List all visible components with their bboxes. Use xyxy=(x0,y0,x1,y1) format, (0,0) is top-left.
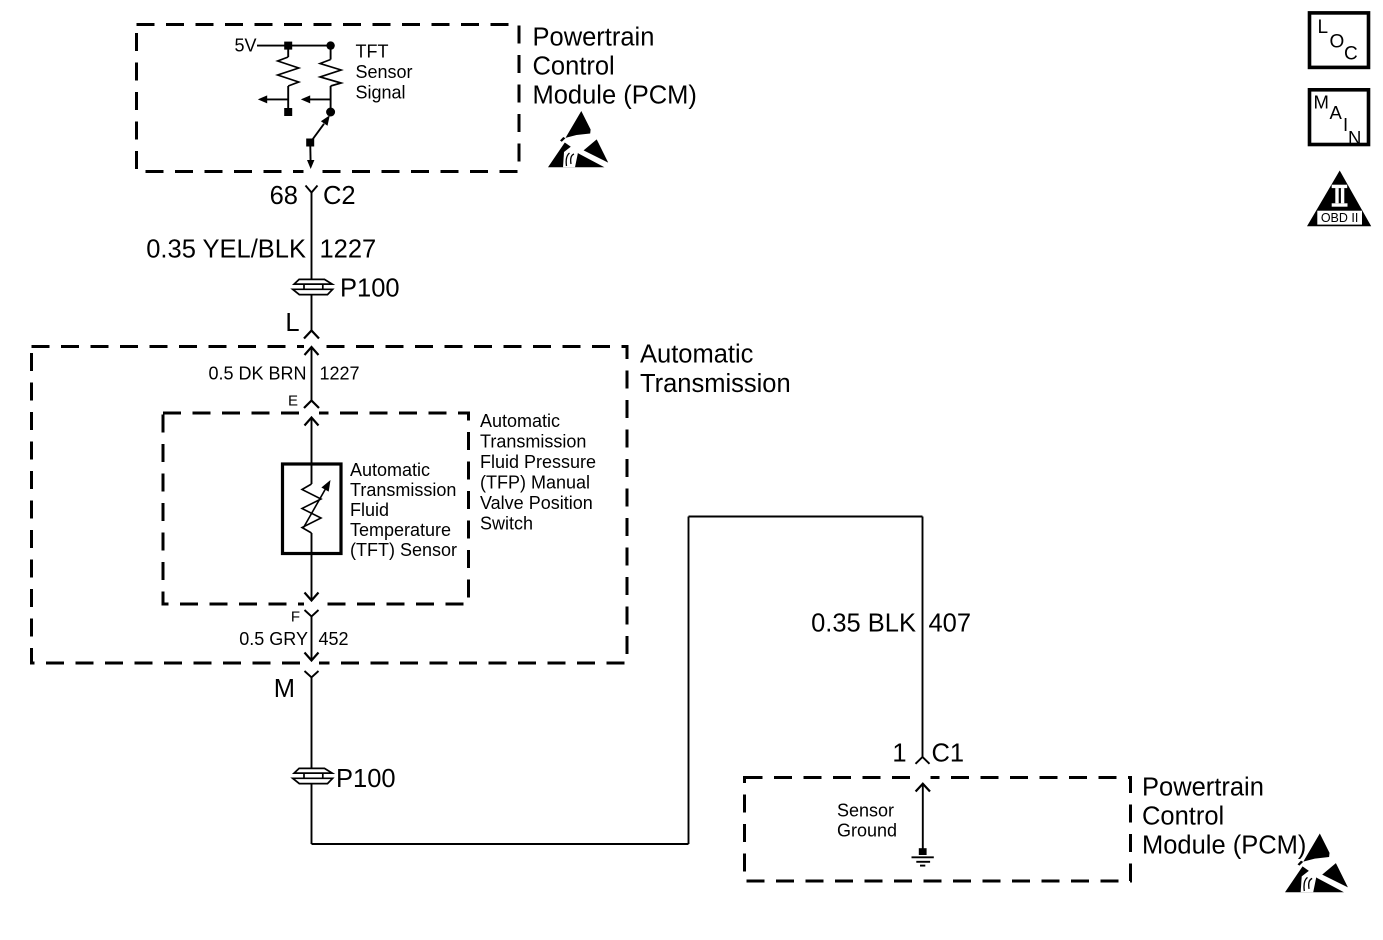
svg-text:E: E xyxy=(288,393,298,410)
thermistor zigzag element xyxy=(302,484,321,533)
wire from L to terminal E xyxy=(311,347,313,401)
resistor R2 (pull-up right) xyxy=(320,46,341,108)
TFP switch inner box (dashed) xyxy=(163,413,469,604)
svg-text:Powertrain: Powertrain xyxy=(1142,774,1264,802)
svg-text:Sensor: Sensor xyxy=(837,801,894,821)
male connector arrow into PCM at C1 xyxy=(916,784,930,792)
Automatic Transmission box (dashed) xyxy=(32,347,628,664)
svg-text:Module (PCM): Module (PCM) xyxy=(533,82,697,110)
svg-text:TFT: TFT xyxy=(356,42,389,62)
svg-text:Temperature: Temperature xyxy=(350,520,451,540)
svg-text:OBD II: OBD II xyxy=(1321,211,1359,225)
svg-text:1227: 1227 xyxy=(320,236,377,264)
wire from M down to P100 lower xyxy=(311,677,313,844)
svg-text:M: M xyxy=(274,675,295,703)
male connector arrow into inner box at E xyxy=(305,418,319,426)
ESD icon top xyxy=(548,111,608,167)
svg-text:Transmission: Transmission xyxy=(480,432,586,452)
svg-text:Transmission: Transmission xyxy=(640,370,791,398)
svg-text:Fluid: Fluid xyxy=(350,500,389,520)
wire from F to AT box edge M xyxy=(311,617,313,661)
TFT sensor box (solid) xyxy=(283,464,342,554)
male connector arrow into AT box at L xyxy=(305,347,319,355)
wire from P100 to terminal L xyxy=(311,295,313,331)
wire 5V rail xyxy=(257,45,331,47)
OBD II triangle icon xyxy=(1307,171,1371,227)
svg-text:O: O xyxy=(1330,32,1345,53)
svg-text:Control: Control xyxy=(533,53,615,81)
label Automatic Transmission Fluid Temperature (TFT) Sensor xyxy=(350,460,457,560)
svg-text:P100: P100 xyxy=(340,275,400,303)
wire bottom horizontal run xyxy=(312,843,689,845)
ESD icon bottom xyxy=(1285,834,1348,893)
svg-text:L: L xyxy=(285,309,299,337)
svg-text:407: 407 xyxy=(929,610,972,638)
label Powertrain Control Module (PCM) top xyxy=(533,24,697,110)
svg-text:5V: 5V xyxy=(234,36,256,56)
switch wiper arm with arrowhead toward R2 terminal xyxy=(311,115,330,141)
wire down to C1 pin 1 xyxy=(922,517,924,758)
svg-text:M: M xyxy=(1314,92,1329,113)
svg-text:Control: Control xyxy=(1142,803,1224,831)
svg-text:Module (PCM): Module (PCM) xyxy=(1142,832,1306,860)
wire from E to TFT sensor xyxy=(311,418,313,485)
male connector arrow out of AT box at M xyxy=(305,653,319,661)
label Automatic Transmission header xyxy=(640,341,791,399)
female connector fork at C1 xyxy=(916,757,930,764)
svg-text:(TFT) Sensor: (TFT) Sensor xyxy=(350,540,457,560)
svg-text:0.35 YEL/BLK: 0.35 YEL/BLK xyxy=(146,236,306,264)
svg-text:Automatic: Automatic xyxy=(480,411,560,431)
wire from TFT sensor down to terminal F xyxy=(311,533,313,601)
svg-text:Fluid Pressure: Fluid Pressure xyxy=(480,452,596,472)
wire vertical riser xyxy=(688,517,690,845)
female connector chevron at L xyxy=(304,331,319,339)
MAIN reference box xyxy=(1310,90,1369,148)
svg-text:68: 68 xyxy=(270,182,298,210)
label Powertrain Control Module (PCM) bottom xyxy=(1142,774,1306,860)
junction dot node at R2 top xyxy=(326,41,334,49)
label Automatic Transmission Fluid Pressure (TFP) Manual Valve Position Switch xyxy=(480,411,596,534)
arrow left from R1 xyxy=(258,95,288,103)
svg-text:1227: 1227 xyxy=(320,364,360,384)
grommet P100 lower xyxy=(293,768,333,783)
female connector fork at M xyxy=(305,671,319,677)
svg-text:L: L xyxy=(1318,17,1329,38)
PCM top box (dashed) xyxy=(137,25,520,172)
PCM bottom box (dashed) xyxy=(745,778,1131,882)
svg-text:Automatic: Automatic xyxy=(640,341,754,369)
svg-text:1: 1 xyxy=(892,740,906,768)
male connector arrow out of inner box at F xyxy=(305,593,319,601)
svg-text:Ground: Ground xyxy=(837,821,897,841)
wire from C1 arrow down to ground xyxy=(922,784,924,849)
svg-text:A: A xyxy=(1330,102,1343,123)
svg-text:C: C xyxy=(1344,44,1358,65)
wire from C2 pin 68 down to P100 xyxy=(311,193,313,296)
svg-text:0.5 GRY: 0.5 GRY xyxy=(239,629,308,649)
wire top horizontal run xyxy=(689,516,923,518)
svg-text:Signal: Signal xyxy=(356,83,406,103)
svg-text:0.5 DK BRN: 0.5 DK BRN xyxy=(208,364,306,384)
female connector chevron at E xyxy=(304,401,319,409)
svg-text:Automatic: Automatic xyxy=(350,460,430,480)
svg-text:C2: C2 xyxy=(323,182,356,210)
svg-text:452: 452 xyxy=(319,629,349,649)
junction square node at R1 top xyxy=(284,42,292,50)
svg-text:Transmission: Transmission xyxy=(350,480,456,500)
connector fork at pin 68 C2 xyxy=(306,186,318,193)
svg-text:Valve Position: Valve Position xyxy=(480,493,593,513)
terminal dot below R2 xyxy=(326,108,335,117)
svg-text:F: F xyxy=(291,609,300,626)
svg-text:C1: C1 xyxy=(932,740,965,768)
svg-text:(TFP) Manual: (TFP) Manual xyxy=(480,473,590,493)
ground symbol xyxy=(912,848,934,865)
resistor R1 (pull-up left) xyxy=(278,46,299,108)
LOC reference box xyxy=(1310,13,1369,68)
female connector fork at F xyxy=(305,610,319,617)
label Sensor Ground xyxy=(837,801,897,841)
thermistor arrow xyxy=(303,480,331,529)
svg-text:Switch: Switch xyxy=(480,514,533,534)
svg-text:Sensor: Sensor xyxy=(356,62,413,82)
arrow left from R2 xyxy=(301,95,331,103)
switch pivot square node xyxy=(306,139,314,147)
grommet P100 upper xyxy=(293,279,333,294)
svg-text:P100: P100 xyxy=(336,765,396,793)
svg-text:Powertrain: Powertrain xyxy=(533,24,655,52)
svg-text:0.35 BLK: 0.35 BLK xyxy=(811,610,916,638)
label TFT Sensor Signal xyxy=(356,42,413,103)
switch arm down arrow to pin 68 xyxy=(307,147,314,170)
terminal square below R1 xyxy=(284,108,292,116)
svg-text:N: N xyxy=(1348,127,1361,148)
